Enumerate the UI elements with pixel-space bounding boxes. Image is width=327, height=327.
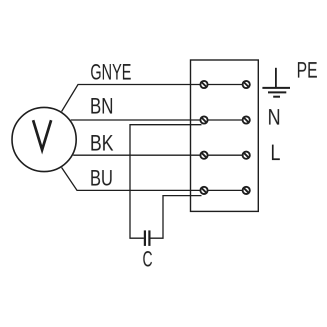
terminal block outline xyxy=(191,60,259,211)
terminal 4 right screw xyxy=(243,187,250,194)
svg-text:N: N xyxy=(268,105,281,130)
earth ground symbol PE xyxy=(262,68,290,97)
svg-text:BU: BU xyxy=(90,165,113,190)
terminal 2 right screw xyxy=(243,116,250,123)
svg-text:L: L xyxy=(270,140,280,165)
svg-text:GNYE: GNYE xyxy=(90,59,131,84)
wire capacitor left branch to terminal 2 xyxy=(130,125,202,239)
terminal 1 right screw xyxy=(243,81,250,88)
V marking inside motor xyxy=(33,120,51,150)
wire capacitor right branch to terminal 4 xyxy=(150,196,201,239)
wire BU from motor to terminal 4 xyxy=(62,168,242,191)
terminal 3 left screw xyxy=(200,152,207,159)
terminal 4 left screw xyxy=(200,187,207,194)
terminal 1 left screw xyxy=(200,81,207,88)
wire BN from motor to terminal 2 xyxy=(71,119,242,121)
svg-text:BN: BN xyxy=(90,93,114,118)
terminal 3 right screw xyxy=(243,152,250,159)
motor circle V xyxy=(12,107,76,171)
wire GNYE from motor to terminal 1 xyxy=(62,85,242,112)
svg-text:C: C xyxy=(143,247,153,272)
wire BK from motor to terminal 3 xyxy=(73,154,242,156)
svg-text:BK: BK xyxy=(90,130,114,155)
svg-text:PE: PE xyxy=(297,58,318,83)
capacitor C plates xyxy=(144,230,146,246)
terminal 2 left screw xyxy=(200,116,207,123)
